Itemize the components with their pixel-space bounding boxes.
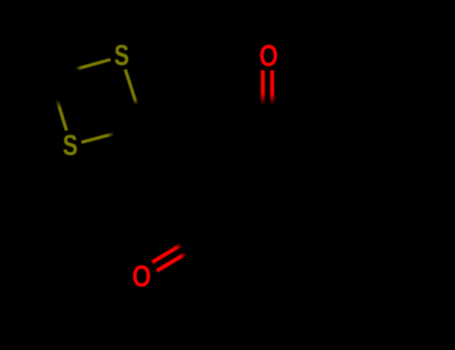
wire: black invisible skeleton of cyclohexane-1,3-dione ring bbox=[140, 105, 331, 277]
svg-text:S: S bbox=[63, 130, 78, 161]
bond S1-C4 (dithietane, olive half) bbox=[76, 60, 111, 70]
svg-text:S: S bbox=[114, 41, 129, 72]
svg-text:O: O bbox=[259, 38, 278, 72]
bond C4-S3 (dithietane, olive half) bbox=[57, 100, 67, 131]
double bond C1=O top (red half, left line) bbox=[261, 70, 265, 105]
double bond C1=O top (red half, right line) bbox=[270, 70, 274, 105]
bond S3-C2 (dithietane, olive half) bbox=[82, 134, 115, 143]
bond S1-C2 (dithietane, olive half) bbox=[125, 70, 136, 105]
svg-text:O: O bbox=[132, 259, 151, 293]
double bond C3=O bottom (red half, lower line) bbox=[157, 253, 186, 270]
double bond C3=O bottom (red half, upper line) bbox=[152, 245, 181, 263]
